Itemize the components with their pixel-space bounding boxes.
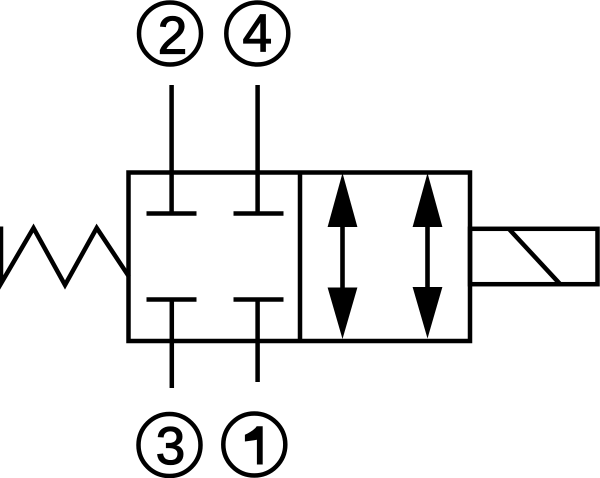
- valve body divider: [298, 173, 303, 342]
- valve body outline: [129, 173, 471, 342]
- closed port bar top-right: [234, 211, 284, 216]
- flow arrow left (double-headed): [328, 173, 358, 339]
- closed port bar top-left: [147, 211, 197, 216]
- closed port bar bottom-left: [147, 297, 197, 302]
- port circle 3: [139, 414, 201, 476]
- wire port 2 stem: [169, 85, 174, 214]
- port number label 1: [245, 426, 263, 464]
- solenoid diagonal: [509, 229, 560, 284]
- wire port 3 stem: [170, 300, 175, 389]
- spring: [1, 227, 129, 286]
- solenoid box: [470, 229, 598, 284]
- port circle 2: [139, 3, 201, 65]
- wire port 1 stem: [255, 300, 260, 383]
- wire port 4 stem: [255, 85, 260, 214]
- closed port bar bottom-right: [234, 297, 284, 302]
- svg-text:4: 4: [243, 5, 272, 64]
- svg-text:3: 3: [156, 417, 185, 476]
- svg-text:2: 2: [158, 6, 187, 65]
- port circle 4: [226, 3, 288, 65]
- flow arrow right (double-headed): [413, 173, 443, 339]
- port circle 1: [223, 414, 285, 476]
